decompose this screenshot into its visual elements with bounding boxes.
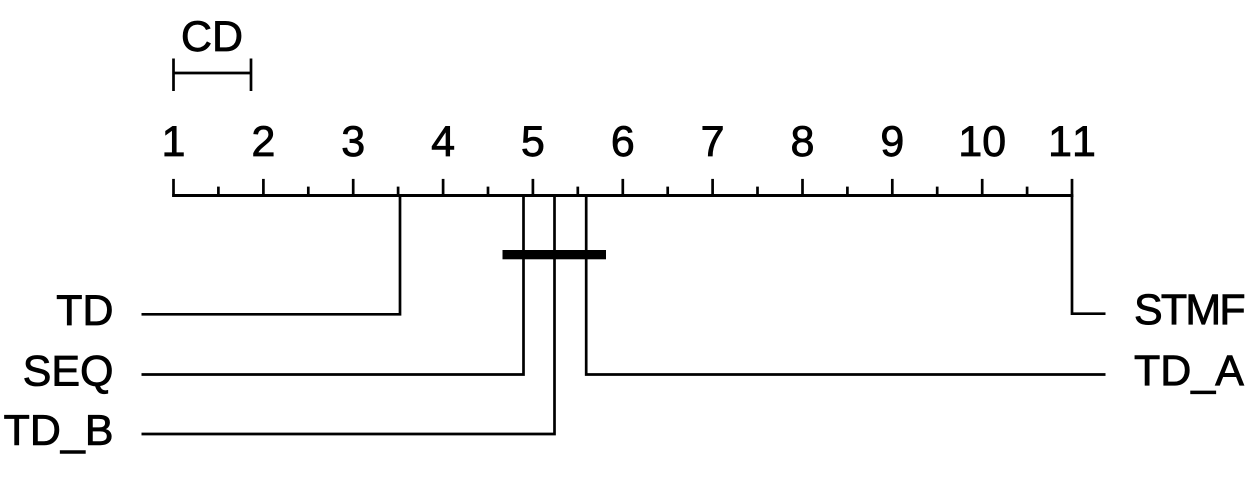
major tick 3 [352,179,355,197]
major tick 7 [711,179,714,197]
label STMF [1136,294,1244,324]
major tick 10 [981,179,984,197]
axis number 10 [962,126,1005,156]
TD_A connector line [586,196,1105,375]
axis number 5 [523,126,543,156]
minor tick 7.5 [756,187,759,197]
major tick 5 [532,179,535,197]
major tick 2 [262,179,265,197]
minor tick 10.5 [1026,187,1029,197]
major tick 4 [442,179,445,197]
axis number 4 [432,126,454,156]
CD label [183,21,241,51]
axis number 6 [613,126,633,156]
label SEQ [25,356,112,394]
axis number 1 [165,126,184,156]
major tick 8 [801,179,804,197]
TD connector line [142,196,401,315]
axis line [172,194,1073,197]
axis number 7 [703,126,723,156]
label TD_B [5,415,112,453]
minor tick 3.5 [397,187,400,197]
label TD [57,295,111,325]
label TD_A [1135,356,1244,394]
axis number 2 [254,126,274,156]
axis number 11 [1051,126,1093,156]
major tick 6 [621,179,624,197]
axis number 3 [343,126,363,156]
TD_B connector line [142,196,555,435]
CD interval bracket [172,59,252,92]
minor tick 2.5 [307,187,310,197]
minor tick 9.5 [936,187,939,197]
SEQ connector line [142,196,524,375]
major tick 11 [1071,179,1074,197]
minor tick 6.5 [666,187,669,197]
STMF connector line [1072,196,1106,314]
axis number 9 [882,126,902,156]
minor tick 4.5 [487,187,490,197]
axis number 8 [792,126,812,156]
minor tick 5.5 [576,187,579,197]
major tick 9 [891,179,894,197]
minor tick 8.5 [846,187,849,197]
major tick 1 [172,179,175,197]
clique significance bar [503,250,607,259]
minor tick 1.5 [217,187,220,197]
